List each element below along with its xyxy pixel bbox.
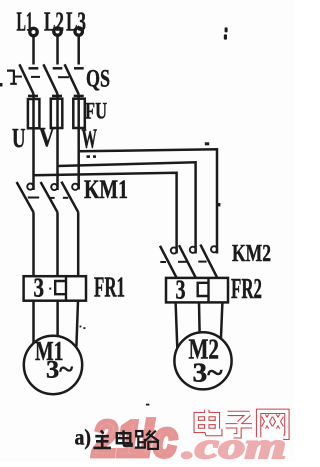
- wire branch U to KM2: [34, 173, 177, 254]
- fuse FU3: [73, 99, 85, 128]
- svg-text:V: V: [39, 122, 55, 152]
- svg-text:KM2: KM2: [232, 241, 271, 267]
- svg-text:QS: QS: [86, 66, 110, 93]
- svg-text:FR2: FR2: [231, 274, 262, 305]
- svg-text:KM1: KM1: [84, 175, 128, 204]
- KM2 linkage dashed line: [160, 261, 206, 263]
- wire FR1 to M1 phase 3: [76, 301, 78, 347]
- wire FR2 to M2 phase 2: [198, 302, 201, 332]
- wire FR2 to M2 phase 3: [221, 302, 223, 339]
- svg-text:3~: 3~: [193, 358, 223, 388]
- contactor KM1 pole 3: [61, 182, 78, 213]
- wire L1 to QS: [32, 37, 35, 65]
- switch QS pole 3: [65, 64, 84, 96]
- fuse FU1: [28, 99, 40, 128]
- switch QS pole 2: [43, 64, 62, 96]
- watermark char 电 (outline red): [196, 410, 220, 434]
- fuse FU2: [51, 99, 63, 128]
- node L2 terminal: [54, 28, 61, 35]
- QS handle: [0, 70, 17, 87]
- motor M2: [174, 332, 231, 389]
- svg-text:U: U: [12, 123, 26, 153]
- speck marks: [87, 27, 228, 405]
- wire FR1 to M1 phase 1: [32, 301, 35, 344]
- node L1 terminal: [30, 28, 37, 35]
- switch QS pole 1: [19, 64, 38, 96]
- wire branch V to KM2: [58, 162, 196, 253]
- watermark char 子 (outline red): [226, 413, 252, 435]
- wire KM1 to FR1 phase 3: [77, 212, 80, 276]
- motor M1: [24, 336, 82, 394]
- contactor KM2 pole 2: [179, 245, 196, 277]
- wire FR2 to M2 phase 1: [176, 302, 178, 348]
- thermal relay FR1 box: [24, 276, 86, 301]
- wire U-phase vertical: [32, 94, 35, 190]
- watermark char 网 (outline red): [259, 411, 287, 437]
- svg-text:a): a): [75, 425, 92, 450]
- FR1 heater element: [55, 276, 66, 301]
- wire L2 to QS: [56, 36, 59, 65]
- contactor KM1 pole 2: [41, 182, 58, 212]
- contactor KM2 pole 1: [160, 246, 177, 278]
- svg-text:3: 3: [176, 275, 186, 305]
- thermal relay FR2 box: [166, 278, 228, 303]
- svg-text:W: W: [82, 124, 98, 154]
- caption char 主: [94, 430, 111, 448]
- svg-text:FU: FU: [85, 98, 107, 123]
- caption char 路: [135, 430, 159, 449]
- FR2 heater element: [198, 278, 209, 303]
- svg-text:3~: 3~: [46, 357, 73, 384]
- wire L3 to QS: [77, 36, 80, 65]
- svg-text:FR1: FR1: [94, 273, 125, 304]
- wire KM1 to FR1 phase 2: [56, 212, 59, 276]
- KM1 linkage dashed line: [28, 197, 68, 199]
- node L3 terminal: [75, 28, 82, 35]
- wire FR1 to M1 phase 2: [56, 301, 59, 337]
- contactor KM1 pole 1: [17, 182, 34, 212]
- wire KM1 to FR1 phase 1: [32, 212, 35, 276]
- wire V-phase vertical: [56, 94, 59, 190]
- wire W-phase vertical: [77, 94, 80, 189]
- wire branch W to KM2: [79, 149, 217, 253]
- contactor KM2 pole 3: [200, 245, 217, 278]
- caption char 电: [117, 430, 132, 446]
- svg-text:3: 3: [34, 273, 45, 303]
- QS linkage dashed line: [15, 76, 70, 79]
